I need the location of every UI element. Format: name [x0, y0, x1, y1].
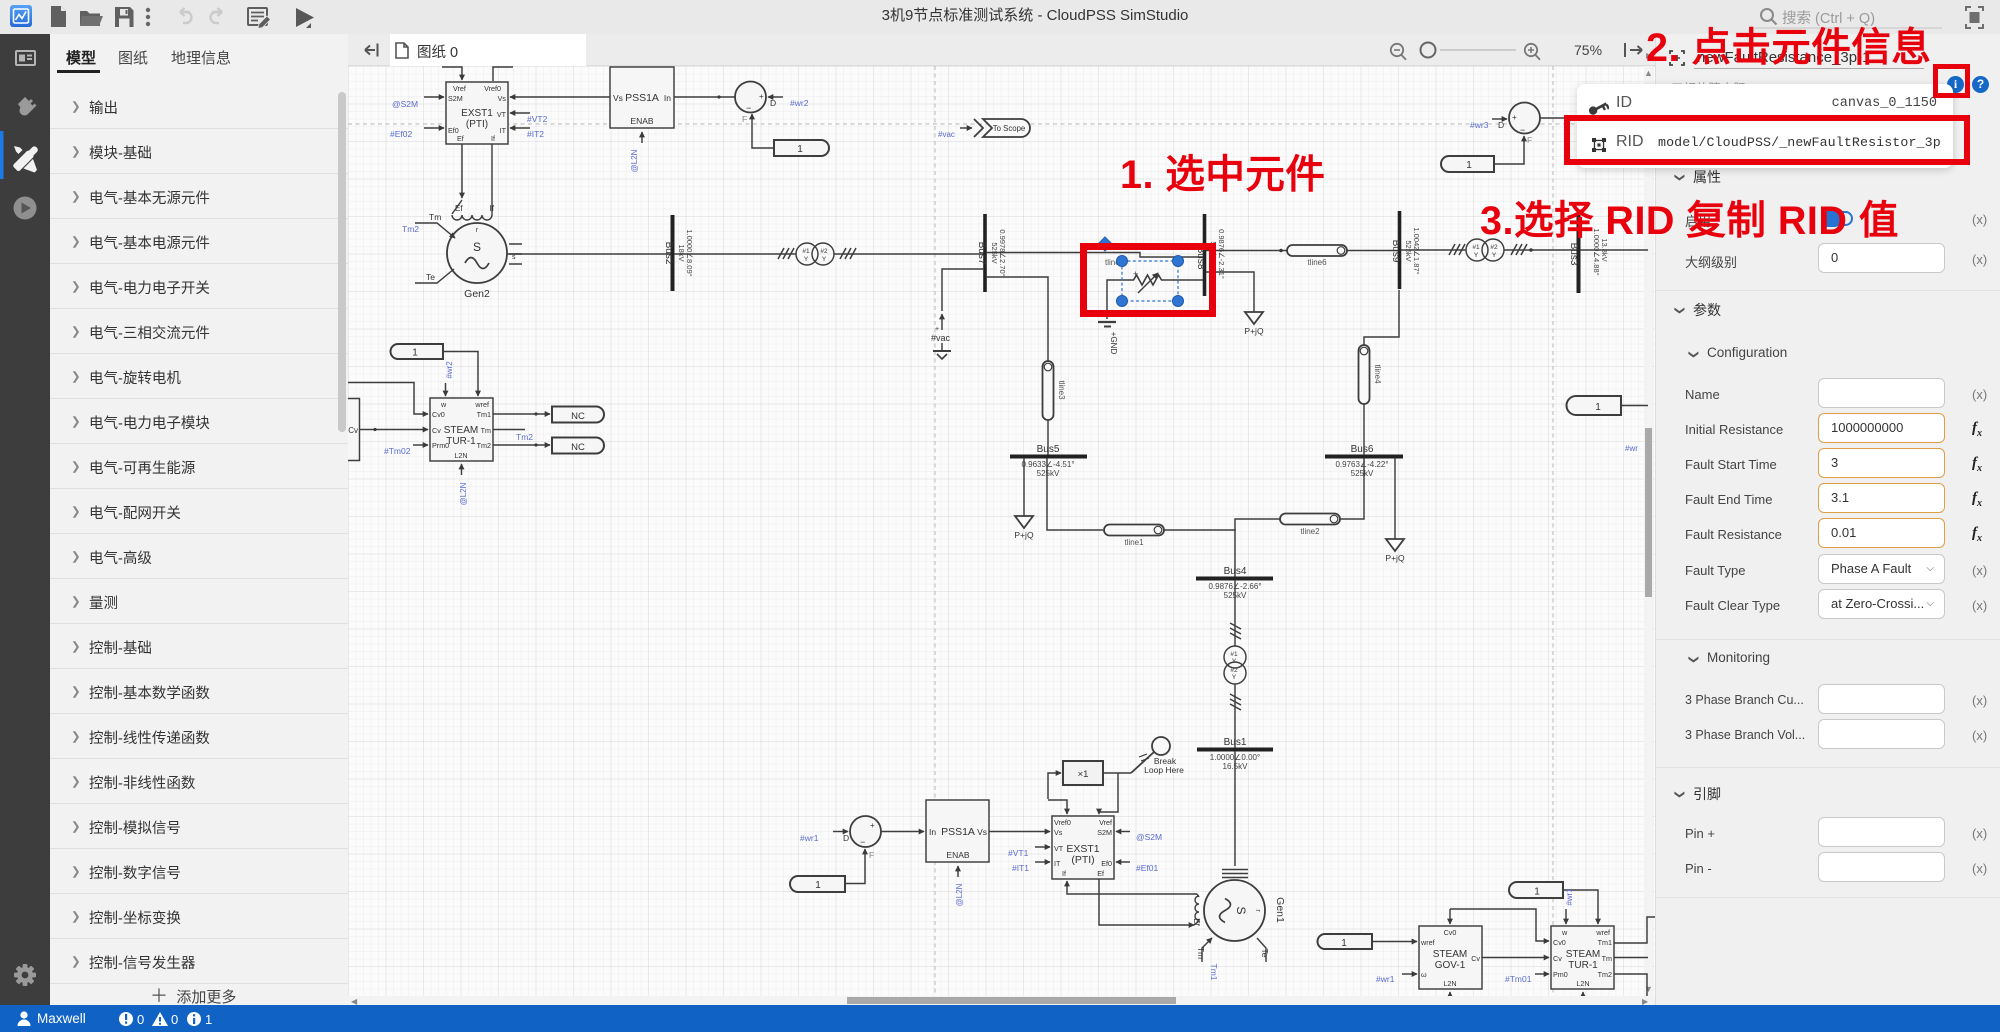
- wire GOV Cv to TUR Cv: [1482, 957, 1549, 959]
- svg-text:S2M: S2M: [448, 94, 463, 103]
- svg-text:525kV: 525kV: [1404, 240, 1413, 261]
- terminal NC 2: [552, 438, 604, 454]
- ground below vac: [933, 350, 951, 352]
- wire Vref top into EXST1 U1: [442, 67, 462, 80]
- bus Bus6: [1325, 444, 1403, 478]
- wire Pm0 stub: [1535, 973, 1549, 975]
- svg-text:#1: #1: [1472, 244, 1480, 251]
- svg-text:#wr2: #wr2: [445, 361, 454, 379]
- wire GOV Cv0 loop to TUR1 Cv0: [348, 383, 428, 415]
- svg-text:#vac: #vac: [931, 333, 951, 343]
- wire Vref0 up from EXST1 U1: [493, 67, 513, 81]
- load P+jQ at Bus8: [1206, 272, 1264, 336]
- wire Vref0 up to x1 input wire: [1048, 800, 1067, 814]
- wire F input of S3: [1494, 136, 1524, 164]
- svg-text:+: +: [870, 821, 875, 830]
- svg-text:D: D: [770, 98, 776, 108]
- section 引脚: [1674, 785, 1692, 801]
- svg-text:Te: Te: [426, 272, 435, 282]
- wire pill to right edge: [1621, 405, 1648, 407]
- channel constant 1 pill (GOV wref): [1318, 934, 1373, 949]
- svg-text:Te: Te: [1260, 949, 1270, 958]
- svg-text:@L2N: @L2N: [459, 482, 468, 505]
- tline3 transmission line: [1043, 361, 1067, 420]
- svg-text:1: 1: [205, 1012, 212, 1027]
- svg-text:Tm2: Tm2: [402, 224, 419, 234]
- wire Bus9 down to tline4: [1364, 290, 1399, 345]
- svg-text:Tm1: Tm1: [1209, 964, 1219, 981]
- svg-text:If: If: [490, 204, 495, 213]
- svg-text:NC: NC: [571, 411, 585, 422]
- svg-text:ENAB: ENAB: [946, 850, 969, 860]
- wire into x1 left: [1048, 773, 1061, 799]
- generator Gen2: [402, 212, 522, 300]
- svg-text:#2: #2: [1230, 667, 1238, 674]
- page boundary dashed horizontal line: [348, 123, 1655, 125]
- svg-text:@L2N: @L2N: [630, 149, 639, 172]
- channel constant 1 pill (Gen1 speed ref): [790, 876, 845, 892]
- svg-text:ENAB: ENAB: [630, 116, 653, 126]
- wire S2M stub: [424, 96, 444, 98]
- svg-text:Gen1: Gen1: [1274, 897, 1286, 923]
- page boundary dashed vertical line 1: [934, 66, 936, 996]
- svg-text:#wr1: #wr1: [800, 833, 819, 843]
- block PSS1A U4 (Gen1): [926, 800, 989, 862]
- svg-text:Tm2: Tm2: [1598, 970, 1612, 979]
- svg-text:F: F: [1527, 135, 1532, 145]
- svg-text:If: If: [491, 134, 495, 143]
- svg-text:wref: wref: [1420, 938, 1435, 947]
- svg-text:TUR-1: TUR-1: [1568, 960, 1598, 971]
- terminal NC 1: [552, 407, 604, 423]
- wire x1 out down to Vref: [1099, 773, 1118, 814]
- wire ENAB stub of U4: [957, 866, 959, 877]
- svg-text:PSS1A: PSS1A: [625, 92, 659, 104]
- junction dot: [1529, 248, 1533, 252]
- wire Bus1 to Gen1: [1234, 751, 1236, 866]
- svg-text:Y: Y: [1492, 252, 1497, 259]
- transformer T3 (Bus9-Bus3): [1449, 239, 1527, 261]
- source #vac: [931, 314, 951, 359]
- wire Ef0 stub: [424, 127, 444, 129]
- svg-text:#Ef02: #Ef02: [390, 129, 412, 139]
- svg-text:Tm2: Tm2: [477, 441, 491, 450]
- svg-text:Cv0: Cv0: [1444, 928, 1457, 937]
- svg-text:ω: ω: [1421, 970, 1427, 979]
- svg-text:If: If: [1062, 869, 1066, 878]
- wire Ef0 stub of U3: [1116, 861, 1130, 863]
- svg-text:tline3: tline3: [1057, 380, 1066, 400]
- svg-text:Bus9: Bus9: [1390, 240, 1401, 263]
- page boundary dashed vertical line 2: [1552, 66, 1554, 996]
- wire PSS1A In to sum S2: [674, 96, 735, 98]
- svg-text:#vac: #vac: [938, 130, 955, 139]
- svg-text:Loop Here: Loop Here: [1144, 765, 1184, 775]
- wire field top jog: [1197, 894, 1199, 897]
- wire field bottom jog: [1194, 921, 1199, 925]
- svg-text:S: S: [473, 240, 481, 254]
- field coil of Gen2: [452, 144, 495, 220]
- wire Bus4 down: [1234, 580, 1236, 646]
- selection box of fault resistor: [1117, 256, 1184, 307]
- wire ENAB stub: [641, 132, 643, 143]
- wire omega stub: [1402, 973, 1417, 975]
- svg-text:75%: 75%: [1574, 42, 1602, 58]
- svg-text:#IT1: #IT1: [1012, 863, 1029, 873]
- wire S2M stub of U3: [1116, 831, 1130, 833]
- svg-text:1: 1: [815, 880, 821, 891]
- svg-text:Tm: Tm: [429, 212, 441, 222]
- svg-text:1: 1: [1466, 160, 1472, 171]
- svg-text:#Tm01: #Tm01: [1505, 974, 1532, 984]
- wire tline2 to Bus6: [1340, 458, 1364, 519]
- wire L2N stub: [461, 464, 463, 475]
- svg-text:S2M: S2M: [1097, 828, 1112, 837]
- svg-text:Vref: Vref: [1099, 818, 1112, 827]
- svg-text:@S2M: @S2M: [1136, 832, 1162, 842]
- svg-text:#VT1: #VT1: [1008, 848, 1029, 858]
- terminal Tm of Gen2: [415, 223, 455, 238]
- svg-text:#VT2: #VT2: [527, 114, 548, 124]
- wire TUR L2N stub: [1582, 992, 1584, 1003]
- svg-text:(PTI): (PTI): [466, 119, 488, 130]
- wire TUR Tm out: [1614, 957, 1648, 959]
- svg-text:#wr1: #wr1: [1565, 888, 1574, 906]
- svg-text:L2N: L2N: [454, 451, 467, 460]
- channel constant 1 pill (Gen2 speed ref): [774, 140, 829, 156]
- block PSS1A U2: [610, 67, 674, 128]
- wire IT stub: [510, 127, 530, 129]
- svg-text:TUR-1: TUR-1: [446, 436, 476, 447]
- tab strip: [348, 34, 1655, 66]
- svg-text:P+jQ: P+jQ: [1385, 553, 1405, 563]
- svg-text:w: w: [440, 400, 447, 409]
- svg-text:VT: VT: [1054, 844, 1064, 853]
- svg-text:Ef: Ef: [457, 134, 464, 143]
- wire tline4 to Bus6: [1363, 404, 1365, 455]
- load P+jQ at Bus6: [1385, 458, 1405, 563]
- svg-text:In: In: [664, 93, 671, 103]
- svg-text:P+jQ: P+jQ: [1244, 326, 1264, 336]
- wire tline1 to Bus4 junction: [1164, 530, 1235, 577]
- svg-text:Bus6: Bus6: [1351, 444, 1374, 455]
- junction diamond selected: [1098, 237, 1112, 251]
- svg-text:0: 0: [171, 1012, 178, 1027]
- ground +GND: [1098, 321, 1116, 323]
- wire T3 to Bus3: [1504, 249, 1577, 251]
- wire F input of S1: [845, 849, 865, 884]
- svg-text:In: In: [929, 827, 936, 837]
- vertical scrollbar: [1644, 66, 1653, 996]
- svg-text:+: +: [759, 92, 764, 101]
- 大纲级别 row: [1685, 252, 1737, 271]
- svg-text:L2N: L2N: [1443, 979, 1456, 988]
- svg-text:Y: Y: [1474, 252, 1479, 259]
- wire Bus5 to tline1: [1047, 458, 1103, 530]
- wire T1 to Bus1: [1234, 684, 1236, 748]
- svg-text:Pm0: Pm0: [1553, 970, 1568, 979]
- field coil of Gen1: [1195, 896, 1199, 920]
- svg-text:Y: Y: [804, 256, 809, 263]
- svg-text:Y: Y: [1232, 674, 1237, 681]
- section 属性: [1674, 168, 1692, 184]
- svg-text:IT: IT: [1054, 859, 1061, 868]
- svg-text:Ef: Ef: [455, 204, 463, 213]
- svg-text:#Tm02: #Tm02: [384, 446, 411, 456]
- wire D input of S2: [768, 96, 783, 98]
- svg-text:IT: IT: [500, 126, 507, 135]
- bus Bus3: [1568, 215, 1609, 293]
- wire Bus7 to fault point and Bus8: [986, 253, 1203, 258]
- wire GOV Cv0 loop over to TUR Cv0: [1450, 909, 1549, 941]
- svg-text:L2N: L2N: [1576, 979, 1589, 988]
- info icon: [1947, 76, 1964, 93]
- break loop here marker: [1131, 737, 1184, 775]
- svg-text:−: −: [746, 103, 751, 113]
- svg-text:#1: #1: [1230, 651, 1238, 658]
- tline2 transmission line: [1280, 514, 1340, 537]
- wire Ef to Gen1 field: [1099, 879, 1194, 925]
- terminal Te of Gen1: [1257, 938, 1266, 962]
- svg-text:+: +: [935, 326, 939, 333]
- bus Bus8: [1195, 214, 1226, 296]
- wire tline3 to Bus5: [1047, 420, 1049, 455]
- wire Bus9 to T3: [1401, 249, 1466, 251]
- svg-text:1: 1: [1595, 402, 1601, 413]
- svg-text:1.0042∠1.87°: 1.0042∠1.87°: [1412, 227, 1421, 274]
- load P+jQ at Bus5: [1014, 458, 1034, 540]
- block x1 gain: [1063, 761, 1103, 785]
- terminal Te of Gen2: [415, 269, 454, 283]
- wire GOV Cv to TUR1 Cv: [360, 429, 428, 431]
- tline4 transmission line: [1359, 345, 1383, 404]
- block EXST1 (PTI) U3 mirrored: [1052, 816, 1114, 879]
- wire Bus7 to vac source: [942, 269, 984, 311]
- bus Bus1: [1197, 737, 1273, 771]
- svg-text:#2: #2: [820, 248, 828, 255]
- svg-text:18kV: 18kV: [677, 244, 686, 261]
- svg-text:tline2: tline2: [1300, 527, 1320, 536]
- wire pill to TUR wref: [1563, 890, 1598, 924]
- svg-text:Bus5: Bus5: [1037, 444, 1060, 455]
- channel constant 1 pill near Bus3: [1567, 396, 1621, 415]
- tline1 transmission line: [1104, 525, 1164, 548]
- svg-text:1.0000∠8.09°: 1.0000∠8.09°: [685, 229, 694, 276]
- svg-text:(PTI): (PTI): [1071, 854, 1094, 866]
- svg-text:×1: ×1: [1078, 769, 1089, 780]
- generator Gen1: [1192, 870, 1286, 981]
- wire tline6 to Bus9: [1347, 250, 1398, 252]
- svg-text:F: F: [869, 850, 874, 860]
- svg-text:Cv0: Cv0: [432, 410, 445, 419]
- svg-text:S: S: [1234, 906, 1248, 914]
- svg-text:−: −: [860, 837, 865, 847]
- wire U4 Vs to EXST1#2 Vs: [989, 831, 1050, 833]
- svg-text:@S2M: @S2M: [392, 99, 418, 109]
- svg-text:tline4: tline4: [1373, 364, 1382, 384]
- svg-text:Y: Y: [822, 256, 827, 263]
- svg-text:F: F: [742, 114, 747, 124]
- svg-text:#wr2: #wr2: [790, 98, 809, 108]
- svg-text:#IT2: #IT2: [527, 129, 544, 139]
- svg-text:#1: #1: [802, 248, 810, 255]
- wire Vs from PSS1A to EXST1: [510, 96, 610, 98]
- svg-text:wref: wref: [1595, 928, 1610, 937]
- svg-text:Vref: Vref: [453, 84, 466, 93]
- svg-text:Tm: Tm: [1602, 954, 1612, 963]
- terminal Tm of Gen1: [1202, 938, 1212, 962]
- svg-text:NC: NC: [571, 442, 585, 453]
- bus Bus4: [1196, 566, 1273, 600]
- svg-text:Bus7: Bus7: [976, 242, 987, 265]
- svg-text:Vref0: Vref0: [484, 84, 501, 93]
- summer S3: [1509, 103, 1540, 146]
- wire If from Gen1 field: [1067, 881, 1197, 894]
- wire pill to wref: [443, 352, 478, 397]
- block STEAM TUR-1 (Gen1): [1551, 926, 1614, 989]
- wire TUR Tm1 out: [1614, 917, 1656, 943]
- svg-text:Cv: Cv: [348, 426, 358, 435]
- svg-text:STEAM: STEAM: [1433, 949, 1467, 960]
- junction dot: [1279, 249, 1283, 253]
- help icon: [1972, 76, 1989, 93]
- svg-text:Tm1: Tm1: [1598, 938, 1612, 947]
- svg-text:Ef0: Ef0: [1101, 859, 1112, 868]
- svg-text:STEAM: STEAM: [444, 425, 478, 436]
- fault resistor newFaultResistance_3p-1: [1098, 269, 1203, 354]
- svg-text:tline6: tline6: [1307, 258, 1327, 267]
- 启用 row: [1685, 211, 1711, 230]
- wire Bus8 to tline6: [1206, 250, 1287, 252]
- svg-text:−: −: [1520, 125, 1525, 135]
- svg-text:Vref0: Vref0: [1054, 818, 1071, 827]
- svg-text:Tm1: Tm1: [477, 410, 491, 419]
- svg-text:Tm: Tm: [1196, 947, 1206, 959]
- wire TUR Tm2 out: [1614, 974, 1647, 1000]
- transformer T2 (Bus2-Bus7): [778, 243, 856, 265]
- svg-text:VT: VT: [497, 110, 507, 119]
- svg-text:Gen2: Gen2: [464, 288, 490, 300]
- svg-text:Y: Y: [1232, 658, 1237, 665]
- svg-text:#wr3: #wr3: [1470, 120, 1489, 130]
- svg-text:Prm0: Prm0: [432, 441, 449, 450]
- wire Bus2 to T2: [674, 253, 796, 255]
- svg-text:Vs: Vs: [613, 93, 623, 103]
- svg-text:+GND: +GND: [1109, 332, 1118, 355]
- bus Bus5: [1010, 444, 1087, 478]
- wire D input of S3: [1492, 118, 1507, 120]
- svg-text:Bus3: Bus3: [1568, 243, 1579, 266]
- transformer T1 (Bus4-Bus1): [1224, 623, 1246, 710]
- svg-text:1: 1: [797, 144, 803, 155]
- wire VT stub of U3: [1035, 846, 1050, 848]
- svg-text:1: 1: [412, 348, 418, 359]
- To Scope flag: [960, 119, 1030, 137]
- wire pill to GOV wref: [1372, 941, 1417, 943]
- channel constant 1 pill (TUR wref): [1509, 882, 1563, 898]
- wire Tm1 to NC: [493, 413, 550, 415]
- svg-text:w: w: [1561, 928, 1568, 937]
- svg-text:Tm: Tm: [481, 426, 491, 435]
- block STEAM TUR-1 (Gen2): [430, 398, 493, 461]
- op-amp exciter block U1 EXST1 (PTI): [446, 82, 508, 144]
- svg-text:Bus4: Bus4: [1224, 566, 1247, 577]
- wire VT stub: [510, 112, 530, 114]
- wire IT stub of U3: [1035, 861, 1050, 863]
- svg-text:PSS1A: PSS1A: [941, 826, 975, 838]
- svg-text:P+jQ: P+jQ: [1014, 530, 1034, 540]
- svg-text:Vs: Vs: [498, 94, 507, 103]
- horizontal scrollbar: [348, 996, 1655, 1005]
- wire Tm stub: [493, 429, 525, 431]
- wire Tm2 to NC: [493, 444, 550, 446]
- bus Bus2: [663, 215, 694, 291]
- wire F input from constant: [752, 114, 774, 148]
- svg-text:Bus2: Bus2: [663, 242, 674, 265]
- wire junction to tline2: [1235, 519, 1280, 531]
- svg-text:Tm2: Tm2: [516, 432, 533, 442]
- svg-text:#wr: #wr: [1625, 444, 1638, 453]
- summer S1: [850, 816, 881, 860]
- wire Bus7 to tline3: [986, 277, 1048, 361]
- svg-text:Vs: Vs: [977, 827, 987, 837]
- svg-text:To Scope: To Scope: [993, 124, 1026, 133]
- wire Prm0 stub: [413, 444, 428, 446]
- wire S3 output: [1540, 117, 1567, 119]
- svg-text:0: 0: [137, 1012, 144, 1027]
- svg-text:@L2N: @L2N: [955, 883, 964, 906]
- svg-text:525kV: 525kV: [1351, 469, 1374, 478]
- svg-text:Vs: Vs: [1054, 828, 1063, 837]
- channel constant 1 pill (Gen3 speed ref): [1441, 156, 1494, 172]
- svg-text:+: +: [1512, 113, 1517, 122]
- node #wr1 stub wire: [833, 831, 848, 833]
- wire GOV L2N stub: [1449, 992, 1451, 1003]
- block STEAM GOV-1: [1419, 926, 1482, 989]
- section 参数: [1674, 301, 1692, 317]
- wire x1 output to break loop: [1103, 772, 1131, 774]
- svg-text:Cv0: Cv0: [1553, 938, 1566, 947]
- svg-text:Bus1: Bus1: [1224, 737, 1247, 748]
- svg-text:D: D: [843, 833, 849, 843]
- svg-text:tline1: tline1: [1124, 538, 1144, 547]
- svg-text:Ef: Ef: [1097, 869, 1104, 878]
- svg-text:Cv: Cv: [1553, 954, 1562, 963]
- svg-text:Cv: Cv: [1471, 954, 1480, 963]
- wire Bus3 to right edge: [1580, 249, 1648, 251]
- svg-text:#wr1: #wr1: [1376, 974, 1395, 984]
- svg-text:1: 1: [1341, 938, 1347, 949]
- svg-text:0.9763∠-4.22°: 0.9763∠-4.22°: [1335, 460, 1388, 469]
- wire w stub of TUR2: [1565, 909, 1567, 924]
- wire w stub: [445, 383, 447, 396]
- svg-text:Cv: Cv: [432, 426, 441, 435]
- partial STEAM GOV block at left edge: [348, 399, 360, 461]
- svg-text:wref: wref: [474, 400, 489, 409]
- svg-text:STEAM: STEAM: [1566, 949, 1600, 960]
- svg-text:GOV-1: GOV-1: [1435, 960, 1466, 971]
- svg-text:EXST1: EXST1: [461, 108, 493, 119]
- svg-text:0.9633∠-4.51°: 0.9633∠-4.51°: [1021, 460, 1074, 469]
- bus Bus9: [1390, 211, 1421, 289]
- wire S1 to PSS1A In: [881, 831, 924, 833]
- wire T2 to Bus7: [834, 253, 984, 255]
- svg-text:525kV: 525kV: [1037, 469, 1060, 478]
- wire Ef down to Gen2 field: [461, 144, 463, 198]
- tline6 transmission line: [1287, 245, 1347, 267]
- bus Bus7: [976, 214, 1007, 292]
- svg-text:s: s: [512, 254, 516, 261]
